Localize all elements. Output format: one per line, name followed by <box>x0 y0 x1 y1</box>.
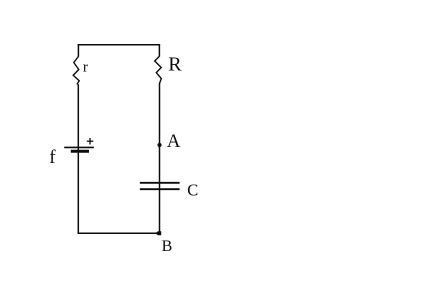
svg-text:R: R <box>168 54 182 76</box>
wire right vertical lower <box>159 83 161 234</box>
wire right vertical upper <box>158 44 160 56</box>
wire top horizontal <box>78 44 160 46</box>
battery f negative plate (short thick) <box>71 150 89 153</box>
svg-text:A: A <box>167 131 181 152</box>
node B <box>155 231 161 235</box>
svg-text:B: B <box>162 238 173 255</box>
battery f positive plate (long thin) <box>64 146 94 148</box>
svg-text:f: f <box>49 147 56 168</box>
battery plus sign <box>87 140 94 142</box>
svg-text:r: r <box>83 60 88 76</box>
capacitor C top plate <box>140 182 180 184</box>
wire bottom horizontal <box>78 232 161 234</box>
wire left vertical lower <box>77 84 79 234</box>
resistor R <box>155 56 162 83</box>
svg-text:C: C <box>187 180 198 199</box>
node A <box>157 143 161 147</box>
wire left vertical upper <box>77 44 79 57</box>
resistor r <box>73 57 79 85</box>
capacitor C bottom plate <box>140 188 180 190</box>
